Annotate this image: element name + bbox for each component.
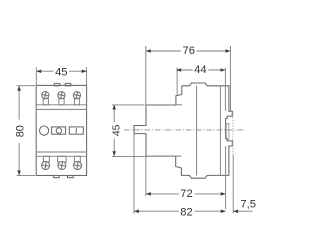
divider line B xyxy=(36,108,86,110)
dim 45 side arrows xyxy=(112,105,116,110)
dim 7,5: tail line xyxy=(233,210,252,212)
DIN rail plane dotted line xyxy=(232,112,234,156)
I-button symbol xyxy=(75,128,77,133)
dim 82: extension line xyxy=(133,134,135,214)
front view body xyxy=(36,85,86,175)
svg-text:45: 45 xyxy=(112,124,123,136)
side view outline xyxy=(134,83,232,178)
dim 7,5 arrow xyxy=(233,209,238,213)
dim 76: extension lines xyxy=(145,46,147,105)
dim 45 front: extension lines xyxy=(35,67,37,85)
svg-text:82: 82 xyxy=(180,206,192,218)
svg-text:80: 80 xyxy=(15,125,27,137)
divider line D xyxy=(36,155,86,157)
svg-text:45: 45 xyxy=(55,67,67,79)
svg-text:72: 72 xyxy=(180,188,192,200)
terminal clamp bottom-mid xyxy=(58,156,67,162)
screw top-left xyxy=(42,92,49,99)
dim 45 side: line xyxy=(113,105,115,157)
svg-text:76: 76 xyxy=(182,45,194,57)
front top tab left xyxy=(54,83,60,86)
dim 80: line xyxy=(18,86,20,176)
dim 76 arrows xyxy=(146,49,151,53)
notch internal edge bottom xyxy=(176,155,182,157)
side internal line 2 xyxy=(219,86,221,176)
svg-text:44: 44 xyxy=(194,64,206,76)
front top tab right xyxy=(65,83,71,86)
O-button box xyxy=(52,127,66,134)
notch internal edge top xyxy=(176,104,182,106)
dim 80: extension lines xyxy=(17,85,35,87)
I-button box xyxy=(69,127,83,134)
dim 82: line xyxy=(134,210,226,212)
dim 7,5: extension line xyxy=(232,155,234,214)
dim 45 front: line xyxy=(36,70,86,72)
svg-text:7,5: 7,5 xyxy=(240,198,256,210)
dim 72: extension lines xyxy=(145,156,147,196)
screw bottom-left xyxy=(42,162,50,170)
screw top-right xyxy=(73,92,80,99)
centerline xyxy=(124,129,245,131)
front bottom foot right xyxy=(68,176,74,178)
knob circle xyxy=(40,126,49,135)
dim 82 arrows xyxy=(134,209,139,213)
dim 72: line xyxy=(146,193,226,195)
terminal clamp top-mid xyxy=(59,99,64,105)
dim 80 arrows xyxy=(17,86,21,91)
front bottom foot left xyxy=(54,176,60,178)
terminal clamp top-left xyxy=(43,99,48,105)
side internal line 1 xyxy=(196,86,198,176)
screw top-mid xyxy=(58,92,65,99)
dim 44: extension lines xyxy=(176,68,178,96)
divider line C xyxy=(36,151,86,153)
DIN clip slider slot xyxy=(226,124,229,140)
dimension lines xyxy=(17,46,253,214)
dim 72 arrows xyxy=(146,192,151,196)
terminal clamp top-right xyxy=(74,99,79,105)
arrows xyxy=(17,49,238,213)
dim 44: line xyxy=(176,69,225,71)
screw bottom-right xyxy=(74,162,82,170)
text masks xyxy=(14,45,208,216)
screw bottom-mid xyxy=(58,162,66,170)
dim 45 front arrows xyxy=(36,69,41,73)
terminal clamp bottom-left xyxy=(43,156,49,162)
dim 44 arrows xyxy=(176,68,181,72)
terminal clamp bottom-right xyxy=(74,156,80,162)
O-button symbol xyxy=(56,128,61,133)
dim 76: line xyxy=(146,50,231,52)
dim 45 side: extension lines xyxy=(112,104,145,106)
divider line A xyxy=(36,104,86,106)
